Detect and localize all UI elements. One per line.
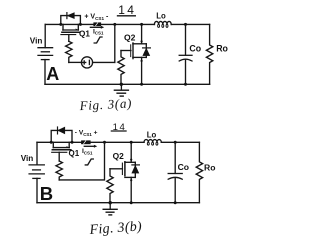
svg-text:Q1: Q1 [69,149,80,158]
svg-text:Q1: Q1 [79,29,90,38]
current arrow ICS1 [90,26,104,29]
wire top bus right segment (b) [161,141,199,143]
wire left vertical (Vin to top bus) [44,24,46,47]
transistor Q1 (b) [51,127,72,161]
svg-text:Vin: Vin [21,154,34,163]
node Co bottom junction (a) [184,83,187,86]
label 14 (b) [111,122,126,133]
svg-text:Co: Co [178,162,189,172]
svg-text:14: 14 [118,3,136,17]
node Q2 source bottom bus [140,83,143,86]
node Q1 right junction (b) [71,141,74,144]
resistor Ro (b) [196,142,202,202]
node Co bottom junction (b) [174,201,177,204]
source injection (circle +) [81,57,92,68]
svg-text:Q2: Q2 [124,32,136,42]
current sense element CS1 (black box on bus) (b) [81,140,91,144]
node R gate Q2 bottom junction (b) [109,201,112,204]
svg-text:Fig. 3(b): Fig. 3(b) [88,219,142,238]
node Q1 left junction (b) [50,141,53,144]
node Co top junction (b) [174,141,177,144]
node Q2 source lead [141,60,143,62]
current sense element CS1 (black box on bus) [93,22,101,26]
wire top bus mid segment (a) [101,23,154,25]
wire bottom bus (a) [45,83,210,85]
inductor Lo (a) [154,21,171,24]
svg-text:Ro: Ro [216,43,228,53]
svg-text:Vin: Vin [30,37,43,46]
source Vin battery (b) [29,165,44,179]
svg-text:A: A [46,64,59,84]
svg-text:Co: Co [189,43,201,53]
node Q2 drain junction top bus (b) [130,141,133,144]
svg-text:Ro: Ro [204,163,215,173]
node Q2 drain junction top bus [140,23,143,26]
svg-text:Lo: Lo [147,130,157,139]
wire top bus left segment (a) [45,23,93,25]
node Q1 right junction [79,23,82,26]
node R gate Q2 bottom junction [120,83,123,86]
svg-text:+ VCS1 -: + VCS1 - [84,13,109,21]
svg-text:- VCS1 +: - VCS1 + [75,129,98,137]
svg-text:B: B [40,183,53,204]
wire sense loop return (b) [59,142,104,180]
wire Vin negative to bottom bus (b) [36,178,38,202]
resistor R gate Q1 (b) [56,161,62,180]
current arrow ICS1 (b) [84,145,97,148]
source Vin battery [38,48,53,60]
resistor R gate Q2 (b) [107,169,113,203]
node sense loop return junction [113,23,116,26]
node Q1 left junction [59,23,62,26]
wire sense loop horizontal right [93,61,115,63]
node Q2 drain lead [141,40,143,42]
capacitor Co (a) [179,24,192,84]
wire sense loop horizontal left [69,61,82,63]
node sense loop return junction (b) [103,141,106,144]
inductor Lo (b) [144,140,161,143]
transistor Q2 [121,24,150,84]
wire sense loop return vertical [114,24,116,62]
node Co top junction (a) [184,23,187,26]
svg-text:ICS1: ICS1 [82,148,93,155]
svg-text:Q2: Q2 [113,151,125,161]
ground (a) [114,84,128,96]
svg-text:ICS1: ICS1 [93,28,104,35]
node Q2 source bottom bus (b) [130,201,133,204]
wire top bus left segment (b) [37,141,81,143]
node Q2 source lead (b) [130,179,132,181]
resistor Ro (a) [206,24,212,84]
svg-text:Lo: Lo [156,12,166,21]
capacitor Co (b) [168,142,182,202]
wire Vin negative to bottom bus [44,60,46,85]
waveform ramp glyph (b) [85,159,93,165]
resistor R gate Q1 [66,41,72,62]
svg-text:Fig. 3(a): Fig. 3(a) [78,95,132,113]
wire top bus mid segment (b) [91,141,144,143]
wire bottom bus (b) [37,202,199,204]
node Q2 drain lead (b) [130,159,132,161]
wire left vertical (Vin to top bus) (b) [36,142,38,165]
wire top bus right segment (a) [171,23,209,25]
ground (b) [103,203,117,215]
waveform ramp glyph (a) [94,37,102,43]
transistor Q1 [61,13,81,42]
label 14 (a) [118,3,137,17]
transistor Q2 (b) [110,142,139,202]
resistor R gate Q2 [118,51,124,85]
